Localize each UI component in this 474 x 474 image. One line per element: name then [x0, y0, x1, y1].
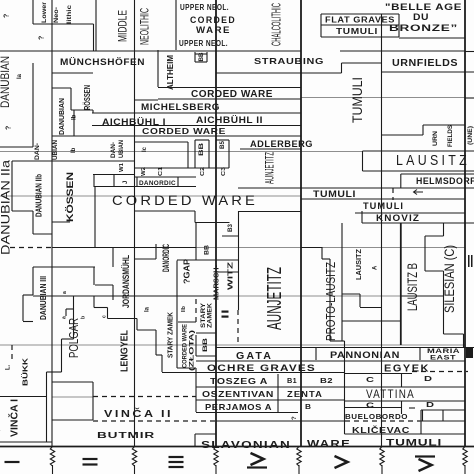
svg-text:VINČA II: VINČA II [104, 407, 173, 420]
svg-text:LENGYEL: LENGYEL [120, 330, 131, 372]
svg-text:UPPER NEOL.: UPPER NEOL. [179, 39, 228, 48]
svg-text:FIELDS: FIELDS [448, 125, 454, 147]
svg-text:DANUBIAN III: DANUBIAN III [39, 276, 48, 320]
svg-text:WARE: WARE [307, 439, 351, 450]
svg-text:LAUSITZ: LAUSITZ [356, 248, 363, 280]
svg-text:POLGAR: POLGAR [66, 318, 81, 358]
svg-text:TOSZEG A: TOSZEG A [210, 376, 268, 386]
svg-text:AICHBÜHL II: AICHBÜHL II [196, 115, 263, 126]
svg-text:B2: B2 [320, 378, 333, 385]
svg-text:C2: C2 [200, 167, 206, 176]
svg-text:GATA: GATA [236, 351, 273, 362]
svg-text:OCHRE GRAVES: OCHRE GRAVES [207, 363, 316, 374]
svg-text:DANUBIAN IIa: DANUBIAN IIa [0, 160, 12, 255]
svg-text:ADLERBERG: ADLERBERG [250, 139, 313, 150]
svg-text:B5: B5 [220, 140, 226, 149]
svg-text:DANORDIC: DANORDIC [139, 181, 176, 187]
svg-text:OSZENTIVAN: OSZENTIVAN [202, 389, 274, 399]
svg-text:AUNJETITZ: AUNJETITZ [264, 267, 286, 330]
svg-text:CORDED WARE: CORDED WARE [112, 192, 258, 208]
svg-text:Lower: Lower [42, 1, 48, 23]
svg-text:LAUSITZ: LAUSITZ [396, 152, 470, 169]
svg-text:URNFIELDS: URNFIELDS [392, 58, 458, 69]
svg-text:A: A [373, 265, 379, 270]
svg-text:WARE: WARE [196, 25, 231, 36]
svg-text:c: c [101, 315, 107, 318]
svg-text:B3: B3 [228, 223, 234, 232]
svg-text:J: J [123, 181, 129, 184]
svg-text:EGYEK: EGYEK [384, 363, 430, 375]
svg-text:DAN-: DAN- [111, 142, 117, 158]
svg-text:STARY: STARY [201, 303, 207, 328]
svg-text:ZENTA: ZENTA [287, 389, 323, 399]
svg-text:STRAUBING: STRAUBING [254, 56, 324, 66]
svg-text:URN: URN [433, 131, 439, 146]
svg-text:?: ? [6, 126, 13, 130]
svg-text:DANUBIAN IIb: DANUBIAN IIb [34, 174, 43, 217]
svg-text:W1: W1 [119, 163, 125, 172]
svg-text:W2: W2 [141, 167, 147, 176]
svg-text:Ib: Ib [71, 147, 77, 153]
svg-text:DANUBIAN: DANUBIAN [0, 56, 12, 108]
svg-text:MARIA: MARIA [427, 349, 461, 355]
svg-text:PERJAMOS A: PERJAMOS A [205, 402, 272, 412]
svg-text:B1: B1 [287, 378, 297, 385]
svg-text:(ZŁOTA): (ZŁOTA) [188, 330, 195, 371]
svg-text:VINČA I: VINČA I [7, 399, 20, 437]
svg-text:KLIČEVAC: KLIČEVAC [352, 424, 410, 435]
svg-text:LAUSITZ B: LAUSITZ B [404, 263, 420, 311]
svg-text:PANNONIAN: PANNONIAN [330, 350, 400, 360]
svg-text:FLAT GRAVES: FLAT GRAVES [325, 16, 395, 25]
svg-text:DU: DU [413, 12, 429, 23]
svg-text:ZAMEK: ZAMEK [208, 302, 214, 328]
svg-text:b: b [80, 316, 86, 319]
svg-text:TUMULI: TUMULI [336, 27, 378, 36]
svg-text:IIb: IIb [181, 306, 187, 312]
svg-text:RÖSSEN: RÖSSEN [83, 85, 92, 110]
svg-text:lithic: lithic [67, 4, 73, 24]
svg-text:(UNE): (UNE) [468, 126, 474, 145]
svg-text:UBIAN: UBIAN [119, 140, 125, 158]
svg-text:Ib: Ib [72, 114, 78, 120]
svg-text:KÖSSEN: KÖSSEN [65, 172, 75, 222]
svg-text:BÜKK: BÜKK [21, 357, 30, 386]
svg-text:BB: BB [199, 142, 205, 156]
svg-text:CORDED WARE: CORDED WARE [142, 126, 226, 136]
svg-text:Ia: Ia [145, 306, 151, 312]
svg-text:C: C [366, 401, 375, 410]
svg-text:NEOLITHIC: NEOLITHIC [137, 8, 151, 45]
svg-text:MÜNCHSHÖFEN: MÜNCHSHÖFEN [60, 57, 145, 68]
svg-text:JORDANSMÜHL: JORDANSMÜHL [121, 255, 131, 308]
svg-text:Ia: Ia [17, 73, 23, 79]
svg-text:EAST: EAST [430, 356, 456, 362]
svg-text:TUMULI: TUMULI [349, 77, 365, 123]
svg-text:UPPER NEOL.: UPPER NEOL. [180, 3, 229, 12]
svg-text:BRONZE”: BRONZE” [389, 23, 458, 34]
svg-text:BUELOBORDO: BUELOBORDO [345, 412, 408, 421]
svg-text:MARSCH-: MARSCH- [212, 265, 221, 300]
svg-text:D: D [426, 400, 435, 409]
svg-text:TUMULI: TUMULI [313, 189, 356, 199]
svg-text:PROTO-LAUSITZ: PROTO-LAUSITZ [323, 262, 338, 341]
svg-text:DAN-: DAN- [35, 143, 41, 160]
svg-text:HELMSDORF: HELMSDORF [416, 176, 474, 186]
svg-text:B: B [305, 404, 311, 411]
svg-text:C1: C1 [158, 167, 164, 176]
svg-text:TUMULI: TUMULI [386, 438, 442, 448]
svg-text:?: ? [292, 416, 298, 420]
svg-text:DANUBIAN: DANUBIAN [59, 98, 66, 135]
svg-text:AUNJETITZ: AUNJETITZ [262, 152, 276, 184]
svg-text:WITZ: WITZ [226, 261, 235, 290]
svg-text:KNOVIZ: KNOVIZ [376, 213, 420, 223]
svg-text:L.: L. [6, 364, 12, 370]
svg-text:MICHELSBERG: MICHELSBERG [141, 102, 220, 112]
svg-text:CORDED WARE: CORDED WARE [191, 89, 273, 100]
svg-text:MIDDLE: MIDDLE [115, 10, 129, 42]
svg-text:SILESIAN (C): SILESIAN (C) [441, 245, 457, 313]
svg-text:?GAP: ?GAP [182, 259, 192, 284]
svg-text:BB: BB [203, 337, 209, 352]
svg-text:CHALCOLITHIC: CHALCOLITHIC [270, 3, 284, 46]
svg-text:?: ? [39, 36, 46, 40]
svg-text:BB: BB [205, 244, 211, 255]
svg-text:?: ? [4, 14, 11, 18]
svg-text:D: D [424, 374, 433, 383]
svg-text:DANORDIC: DANORDIC [161, 244, 171, 272]
svg-text:CORDED WARE: CORDED WARE [181, 323, 188, 368]
svg-text:VATTINA: VATTINA [366, 387, 415, 401]
svg-text:C3: C3 [221, 167, 227, 176]
svg-text:BB: BB [199, 52, 205, 62]
svg-text:Neo-: Neo- [54, 7, 60, 23]
svg-text:BUTMIR: BUTMIR [97, 431, 155, 440]
svg-text:UBIAN: UBIAN [53, 140, 59, 160]
svg-text:C: C [366, 375, 375, 384]
svg-text:STARY ZAMEK: STARY ZAMEK [166, 312, 175, 358]
svg-text:ALTHEIM: ALTHEIM [165, 55, 175, 90]
svg-text:a: a [62, 291, 68, 294]
svg-text:TUMULI: TUMULI [363, 201, 404, 211]
svg-text:Ic: Ic [142, 146, 148, 152]
